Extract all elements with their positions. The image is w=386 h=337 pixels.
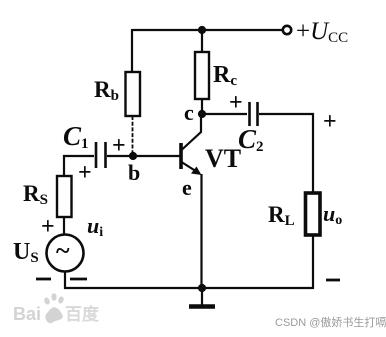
wire Rc bottom to node c	[201, 99, 203, 114]
wire emitter down	[200, 174, 202, 288]
transistor VT	[181, 116, 202, 175]
node top junction	[198, 26, 206, 34]
terminal +Ucc	[283, 26, 291, 34]
resistor Rb	[126, 72, 141, 116]
svg-text:+: +	[78, 160, 92, 186]
wire Rc top	[201, 29, 203, 52]
wire RL bottom	[312, 235, 314, 289]
svg-text:+UCC: +UCC	[296, 18, 348, 46]
wire base	[133, 155, 180, 157]
watermark baidu	[10, 292, 110, 326]
wire C1 left	[64, 156, 94, 176]
wire Rs to source	[63, 217, 65, 235]
svg-text:+: +	[41, 214, 55, 240]
svg-text:~: ~	[56, 236, 70, 265]
svg-text:VT: VT	[205, 144, 241, 173]
wire Rb bottom to node b	[132, 116, 134, 156]
svg-text:+: +	[229, 90, 243, 116]
wire Rb top	[131, 29, 133, 72]
resistor RL	[306, 193, 321, 235]
svg-text:C1: C1	[63, 121, 89, 152]
svg-text:RL: RL	[268, 202, 295, 229]
svg-text:Rc: Rc	[213, 62, 237, 89]
resistor Rc	[195, 52, 209, 99]
svg-text:US: US	[13, 239, 39, 266]
watermark csdn	[275, 314, 386, 330]
svg-text:c: c	[184, 100, 194, 125]
node b	[129, 152, 137, 160]
wire bottom rail	[64, 287, 313, 289]
wire c to C2	[202, 113, 247, 115]
node ground junction	[198, 284, 206, 292]
svg-text:Rb: Rb	[94, 77, 119, 104]
minus output bottom	[326, 279, 340, 282]
wire C2 to right branch	[259, 114, 313, 193]
node c	[198, 110, 206, 118]
svg-text:Bai: Bai	[13, 304, 41, 324]
svg-text:C2: C2	[238, 124, 264, 155]
svg-text:e: e	[182, 175, 192, 200]
source Us	[47, 235, 84, 272]
minus source left	[36, 278, 51, 281]
capacitor C2	[250, 102, 258, 126]
svg-text:uo: uo	[323, 201, 342, 228]
wire C1 right to node b	[107, 155, 133, 157]
svg-text:ui: ui	[87, 213, 103, 240]
svg-text:+: +	[323, 109, 337, 135]
svg-text:百度: 百度	[65, 304, 100, 324]
svg-text:RS: RS	[23, 181, 48, 208]
minus source right	[70, 278, 87, 281]
ground	[189, 288, 215, 307]
svg-text:+: +	[112, 133, 126, 159]
capacitor C1	[96, 142, 106, 168]
svg-text:b: b	[128, 160, 140, 185]
wire top rail	[132, 29, 283, 31]
resistor Rs	[57, 176, 72, 217]
wire source bottom	[64, 271, 66, 289]
